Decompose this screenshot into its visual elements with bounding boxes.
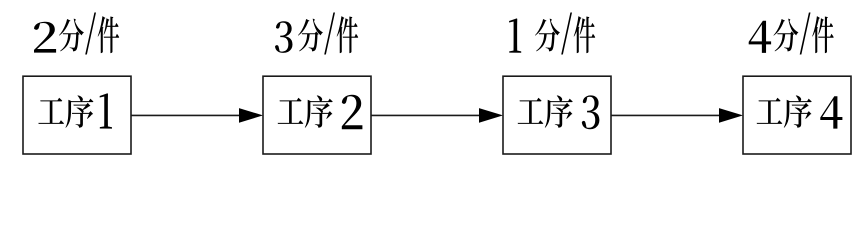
arrow from box 2 to box 3 <box>371 108 503 123</box>
label "1分/件" above box 3 <box>509 13 595 55</box>
label "2分/件" above box 1 <box>34 13 119 55</box>
label "4分/件" above box 4 <box>749 13 834 55</box>
arrow from box 3 to box 4 <box>611 108 743 123</box>
process box 工序1 <box>23 76 131 154</box>
process box 工序3 <box>503 76 611 154</box>
label "3分/件" above box 2 <box>275 13 358 55</box>
arrow from box 1 to box 2 <box>131 108 263 123</box>
process box 工序2 <box>263 76 371 154</box>
process box 工序4 <box>743 76 851 154</box>
